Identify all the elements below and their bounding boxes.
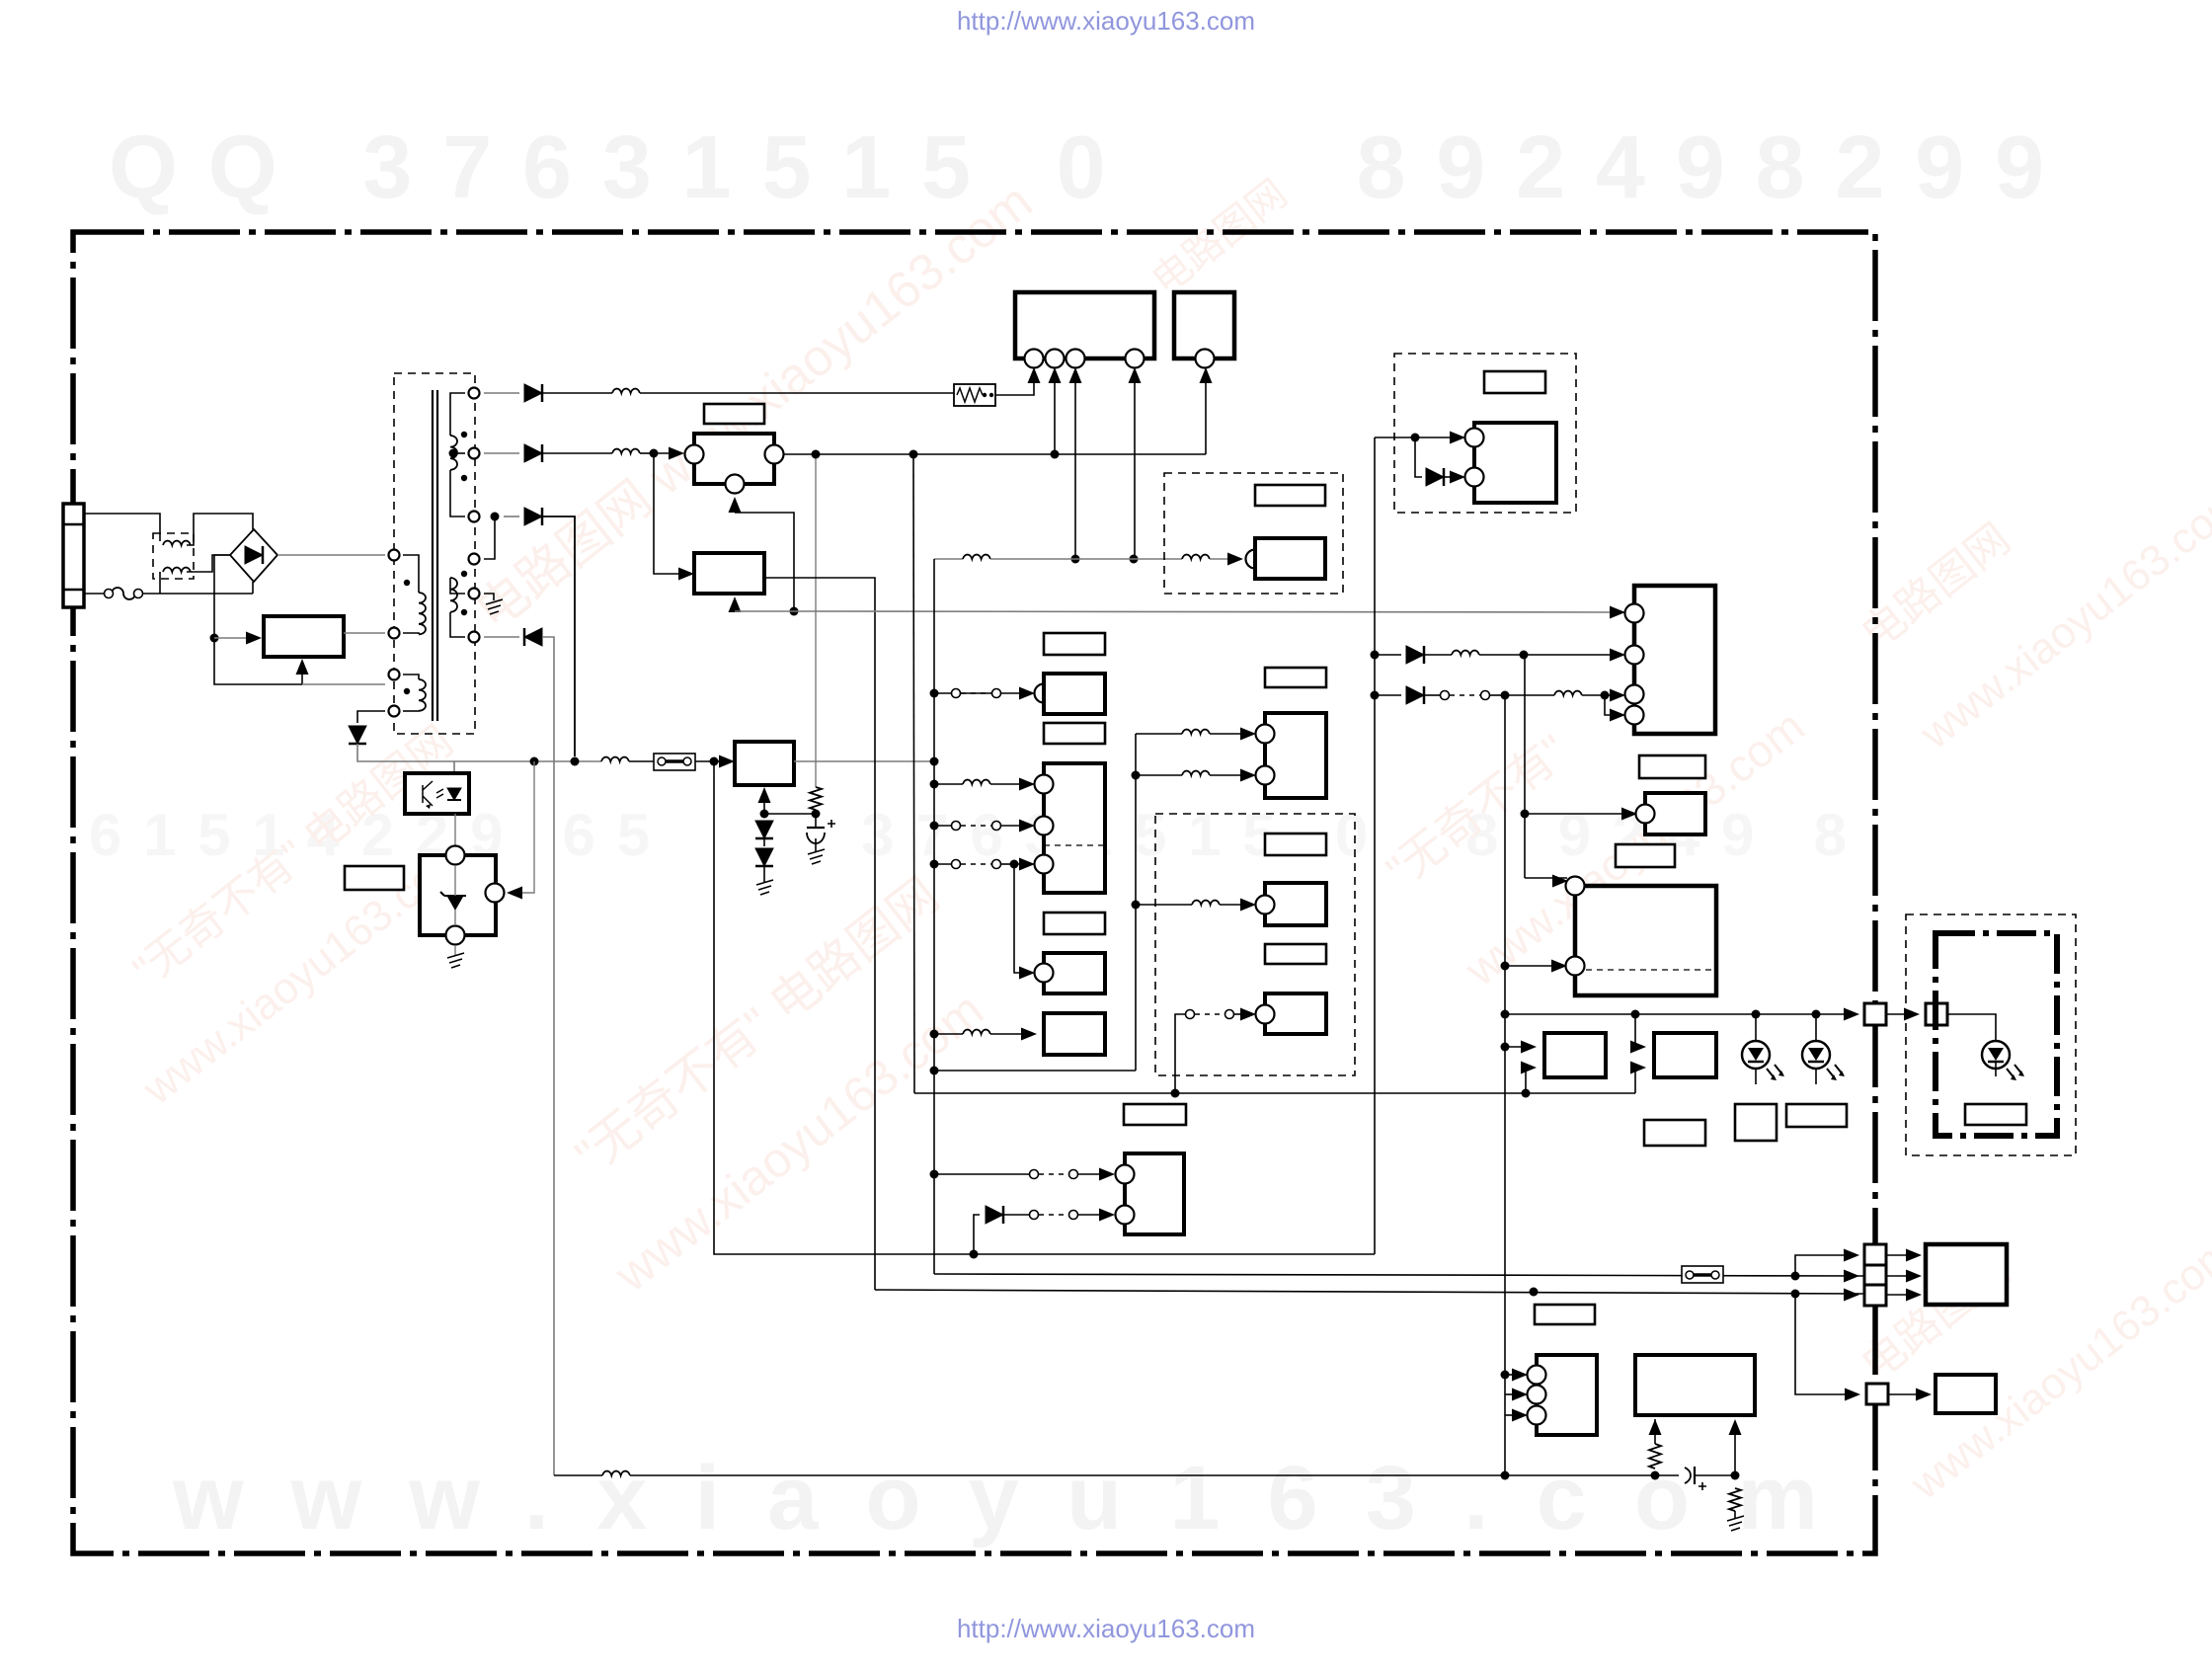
label box — [1044, 723, 1105, 744]
wire — [934, 1033, 963, 1035]
junction — [1171, 1089, 1180, 1098]
wire — [1490, 694, 1505, 696]
contact — [1030, 1211, 1039, 1220]
capacitor polarized — [1685, 1468, 1691, 1483]
arrow — [1844, 1289, 1859, 1302]
pin — [1566, 957, 1585, 976]
wire GND drop — [542, 637, 554, 1475]
block CD mechanism — [1015, 292, 1154, 358]
label box — [1044, 633, 1105, 655]
bus vertical — [1135, 734, 1137, 1071]
junction — [650, 449, 659, 458]
wire — [934, 1070, 1136, 1072]
arrow — [1019, 858, 1035, 871]
pin — [1116, 1165, 1135, 1184]
wire -B drop — [542, 516, 575, 756]
bus vertical — [1374, 437, 1376, 1254]
resistor R810 — [1649, 1444, 1661, 1469]
arrow — [1916, 1389, 1932, 1401]
junction — [1501, 1371, 1510, 1380]
wire — [735, 513, 794, 611]
junction — [1501, 691, 1510, 700]
wire control — [520, 761, 534, 893]
wire — [1582, 694, 1605, 696]
arrow — [1610, 709, 1625, 722]
wire — [1210, 558, 1236, 560]
junction — [1521, 810, 1530, 819]
internal dashed divider — [1044, 844, 1105, 846]
wire — [1424, 654, 1452, 656]
diode — [1406, 686, 1424, 704]
contact — [1186, 1010, 1195, 1019]
ground — [1727, 1516, 1744, 1531]
winding polarity dot — [404, 688, 410, 694]
wire to LED — [1815, 1014, 1817, 1041]
pin right — [765, 445, 784, 464]
ground — [447, 953, 464, 968]
wire — [1375, 694, 1401, 696]
pin secondary y566 — [469, 554, 480, 565]
pin — [1625, 646, 1644, 665]
AC inlet connector — [63, 504, 84, 607]
fusible resistor PS801 — [954, 384, 995, 406]
contact — [952, 689, 961, 698]
wire — [1695, 1474, 1735, 1476]
polarity dot — [461, 609, 467, 615]
arrow — [1450, 471, 1465, 484]
pin — [1528, 1366, 1546, 1385]
wire — [1654, 1419, 1656, 1444]
wire — [990, 1033, 1027, 1035]
svg-text:http://www.xiaoyu163.com: http://www.xiaoyu163.com — [957, 1614, 1255, 1643]
pin x1149 — [1126, 350, 1145, 368]
ground — [756, 880, 773, 895]
optocoupler LED symbol — [447, 788, 461, 800]
wire to transformer pin — [302, 683, 385, 685]
fuse terminal — [105, 590, 114, 598]
diode — [1406, 646, 1424, 664]
wire DC- — [214, 555, 302, 684]
line filter FL1 — [153, 533, 194, 579]
wire — [1888, 1393, 1924, 1395]
wire up — [1205, 373, 1207, 454]
wire — [629, 760, 654, 762]
wire — [934, 863, 951, 865]
wire — [1635, 1014, 1638, 1047]
junction — [1601, 691, 1610, 700]
junction — [1530, 1288, 1539, 1297]
pin — [1625, 706, 1644, 725]
wire — [454, 814, 456, 845]
pin — [1256, 766, 1275, 785]
wire — [1375, 654, 1401, 656]
rail 5.7V — [454, 760, 601, 762]
wire tap — [453, 452, 465, 454]
arrow — [1649, 1419, 1662, 1435]
wire — [1886, 1294, 1914, 1296]
pin bottom — [446, 926, 465, 945]
wire — [1415, 437, 1422, 477]
junction — [1051, 450, 1060, 459]
diode D803 — [524, 444, 542, 462]
wire — [734, 599, 736, 611]
wire — [1635, 1068, 1638, 1093]
label box — [1639, 755, 1705, 778]
wire — [1078, 1214, 1106, 1216]
pin — [1528, 1406, 1546, 1425]
arrow — [1240, 1008, 1256, 1021]
wire to syscon — [794, 611, 1625, 612]
contact — [992, 860, 1001, 869]
wire — [934, 1173, 1029, 1175]
wire 5V out — [794, 760, 934, 762]
wire — [450, 612, 465, 637]
block syscon main — [1634, 586, 1715, 734]
wire — [714, 760, 728, 762]
wire — [1505, 1474, 1655, 1476]
rail 8V — [934, 558, 963, 560]
inductor — [1182, 771, 1210, 775]
wire — [764, 813, 816, 815]
inlet divider — [63, 523, 84, 526]
wire — [1424, 694, 1440, 696]
wire — [357, 711, 385, 723]
arrow — [1906, 1249, 1922, 1262]
wire — [454, 865, 456, 896]
wire — [995, 373, 1034, 395]
transformer T801 dashed outline — [394, 373, 475, 734]
arrow — [1129, 367, 1142, 383]
bus vertical x723 — [714, 761, 974, 1254]
wire — [1234, 1013, 1246, 1015]
junction — [1501, 1010, 1510, 1019]
arrow — [669, 447, 684, 460]
rail3 — [875, 1290, 1866, 1294]
wire — [1886, 1254, 1914, 1256]
wire — [934, 783, 963, 785]
block LED driver 2 — [1654, 1033, 1716, 1077]
junction — [930, 780, 939, 789]
arrow into reg — [758, 787, 771, 803]
arrow — [1729, 1419, 1742, 1435]
contact — [1441, 691, 1450, 700]
contact — [992, 689, 1001, 698]
pin secondary y398 — [469, 388, 480, 399]
optocoupler transistor symbol — [423, 781, 433, 806]
pin — [1246, 550, 1265, 569]
rail1 — [974, 1253, 1375, 1255]
wire — [1001, 825, 1027, 827]
winding polarity dot — [404, 580, 410, 586]
connector square — [1866, 1384, 1888, 1404]
arrow — [1240, 728, 1256, 741]
inductor — [963, 1030, 990, 1034]
junction — [812, 450, 821, 459]
filter coil upper — [163, 541, 191, 545]
wire drive — [344, 632, 385, 634]
arrow — [1610, 689, 1625, 702]
pin — [1256, 896, 1275, 914]
wire — [1605, 694, 1618, 696]
label box — [1124, 1104, 1186, 1125]
pin primary top — [389, 550, 400, 561]
wire — [1886, 1275, 1914, 1277]
connector squares on border — [1864, 1244, 1886, 1265]
wire to bridge top — [187, 514, 253, 545]
inductor L802 — [612, 389, 640, 393]
pin — [1035, 684, 1054, 703]
wire — [1505, 1414, 1521, 1416]
wire — [403, 633, 419, 634]
wire — [974, 1215, 980, 1254]
ground — [486, 599, 503, 614]
junction — [1130, 555, 1139, 564]
pin secondary y459 — [469, 448, 480, 459]
block syscon sub — [1044, 763, 1105, 893]
wire — [1444, 476, 1458, 478]
inductor — [1182, 730, 1210, 734]
wire — [961, 692, 991, 694]
pin — [1035, 855, 1054, 874]
wire — [763, 866, 765, 882]
arrow into IC — [246, 632, 262, 645]
inductor — [1554, 691, 1582, 695]
arrow — [1630, 1041, 1646, 1054]
arrow — [1610, 606, 1625, 619]
wire — [695, 760, 714, 762]
junction — [1812, 1010, 1821, 1019]
wire neutral — [160, 593, 253, 595]
wire vertical — [1524, 655, 1526, 878]
diode D802 — [524, 384, 542, 402]
wire PW-ON bus — [764, 578, 875, 1290]
wire — [1001, 692, 1027, 694]
contact — [1225, 1010, 1234, 1019]
contact — [1069, 1170, 1078, 1179]
wire — [159, 572, 161, 594]
block audio mute — [1265, 713, 1326, 798]
junction — [1631, 1010, 1640, 1019]
wire — [403, 555, 419, 593]
pin left — [685, 445, 704, 464]
wire — [1074, 373, 1076, 559]
label box LED — [1965, 1104, 2026, 1125]
junction — [1010, 860, 1019, 869]
junction — [1791, 1272, 1800, 1281]
diode D807 — [755, 848, 773, 866]
arrow — [1551, 960, 1567, 973]
block servo/driver — [1575, 886, 1716, 995]
block — [1044, 1013, 1105, 1055]
wire — [454, 945, 456, 955]
wire — [1001, 863, 1014, 865]
wire — [214, 637, 248, 639]
block inside module — [1255, 538, 1325, 579]
fuse F1 — [112, 588, 135, 599]
wire — [504, 516, 519, 517]
wire — [436, 390, 438, 721]
pin — [1465, 468, 1484, 487]
diode — [1426, 468, 1444, 486]
arrow — [1028, 367, 1041, 383]
resistor R801 — [810, 787, 822, 810]
wire — [1134, 373, 1136, 559]
primary winding — [419, 593, 426, 634]
rail — [914, 1092, 1635, 1094]
wire — [1505, 1046, 1529, 1048]
inductor — [1192, 901, 1220, 905]
contact — [952, 822, 961, 831]
wire LED supply rail — [1505, 1013, 1852, 1015]
pin — [1256, 1005, 1275, 1024]
pin bottom — [726, 475, 745, 494]
wire — [734, 499, 736, 507]
rail SW5.7V — [783, 453, 816, 455]
wire — [1605, 695, 1618, 715]
wire — [654, 452, 677, 454]
block LED driver 1 — [1544, 1033, 1606, 1077]
wire — [432, 390, 434, 721]
dashed LED module — [1906, 914, 2076, 1155]
wire — [1886, 1013, 1912, 1015]
junction — [930, 757, 939, 766]
pin — [1625, 685, 1644, 704]
pin top — [446, 846, 465, 865]
label box — [1786, 1104, 1847, 1127]
arrow — [678, 568, 694, 581]
wire — [403, 710, 419, 712]
block audio DAC — [1537, 1355, 1597, 1435]
wire — [1014, 863, 1027, 865]
fuse link on rail2 — [1682, 1266, 1723, 1283]
pin secondary y523 — [469, 512, 480, 522]
wire — [1479, 654, 1524, 656]
arrow into Q801 — [729, 596, 742, 612]
bus vertical — [1504, 695, 1506, 1475]
wire — [301, 665, 303, 684]
wire to bridge bottom — [252, 582, 254, 594]
wire — [990, 558, 1182, 560]
wire — [913, 453, 1055, 455]
secondary winding S1 — [450, 436, 457, 470]
polarity dot — [461, 432, 467, 437]
switching regulator IC801 — [264, 616, 344, 657]
junction — [1371, 651, 1380, 660]
wire — [1210, 774, 1246, 776]
wire LED cathode — [1815, 1069, 1817, 1084]
pin x1047 — [1025, 350, 1044, 368]
arrow — [1521, 1062, 1537, 1074]
pin — [1528, 1386, 1546, 1404]
wire — [640, 392, 954, 394]
relay drive Q801 — [694, 553, 764, 594]
wire +B rail — [484, 392, 519, 394]
wire — [640, 452, 654, 454]
wire — [630, 1474, 1505, 1476]
wire — [735, 610, 794, 612]
block power detect — [1044, 674, 1105, 714]
junction — [1752, 1010, 1761, 1019]
capacitor C801 — [807, 827, 825, 829]
pin — [1566, 877, 1585, 896]
block power amp — [1635, 1355, 1755, 1415]
contact — [952, 860, 961, 869]
contact — [1481, 691, 1490, 700]
wire — [1078, 1173, 1106, 1175]
arrow — [1512, 1409, 1528, 1422]
junction — [1520, 651, 1529, 660]
inductor L806 — [1182, 555, 1210, 559]
wire — [450, 470, 465, 516]
rail2 — [934, 1274, 1866, 1276]
arrow — [1019, 820, 1035, 833]
junction — [930, 1170, 939, 1179]
arrow — [1240, 899, 1256, 912]
arrow — [1019, 687, 1035, 700]
wire — [542, 392, 612, 394]
label box RY801 — [704, 404, 764, 424]
arrow — [1099, 1209, 1115, 1222]
arrow into IC bottom — [296, 659, 309, 675]
dashed module FM/AM — [1164, 473, 1343, 594]
label box — [1484, 371, 1545, 393]
zener symbol — [440, 892, 466, 910]
wire rail — [484, 452, 519, 454]
arrow — [1844, 1008, 1859, 1021]
connector square — [1926, 1003, 1947, 1025]
wire — [454, 910, 456, 925]
wire — [1795, 1255, 1852, 1276]
junction — [210, 634, 219, 643]
junction — [1501, 962, 1510, 971]
arrow — [1845, 1389, 1860, 1401]
wire into opto — [453, 761, 455, 773]
wire — [1505, 1374, 1521, 1376]
junction — [930, 1067, 939, 1075]
arrow — [1019, 778, 1035, 791]
junction — [571, 757, 580, 766]
pin — [1035, 964, 1054, 983]
inductor L804 — [601, 757, 629, 761]
arrow — [1552, 875, 1568, 888]
block DC-DC — [1474, 423, 1556, 503]
wire — [1505, 694, 1554, 696]
pin secondary y645 — [469, 632, 480, 643]
arrow — [1021, 1028, 1037, 1041]
pin — [1196, 350, 1215, 368]
wire — [1505, 1393, 1521, 1395]
junction — [812, 810, 821, 819]
diode D806 — [349, 726, 366, 744]
junction — [530, 757, 539, 766]
wire LED cathode — [1755, 1069, 1757, 1084]
dashed module IC riser — [1394, 354, 1576, 513]
wire — [1524, 654, 1618, 656]
inductor — [1452, 651, 1479, 655]
pin — [1116, 1206, 1135, 1225]
wire — [1136, 774, 1182, 776]
junction — [1731, 1471, 1740, 1480]
block display — [1174, 292, 1234, 358]
svg-text:http://www.xiaoyu163.com: http://www.xiaoyu163.com — [957, 6, 1255, 36]
junction — [1651, 1471, 1660, 1480]
arrow — [1844, 1270, 1859, 1283]
block — [1265, 883, 1326, 925]
pin — [1636, 805, 1655, 824]
pin — [1256, 725, 1275, 744]
wire — [450, 393, 465, 436]
filter coil lower — [163, 568, 191, 572]
